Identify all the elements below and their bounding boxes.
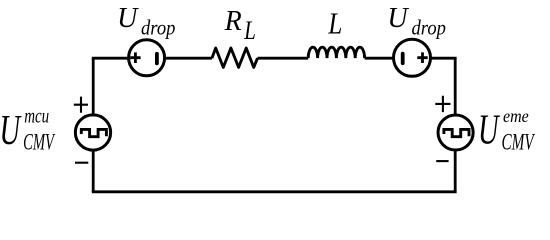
source Udrop2 circle xyxy=(394,39,431,76)
source Ucmv-mcu circle xyxy=(75,115,110,150)
svg-text:R: R xyxy=(224,6,242,37)
Ucmv-mcu square wave xyxy=(81,129,106,136)
Ucmv-eme square wave xyxy=(444,129,469,136)
svg-text:U: U xyxy=(387,3,409,34)
wire: bottom return xyxy=(92,190,457,193)
wire: between resistor and inductor xyxy=(258,57,309,60)
inductor L humps xyxy=(308,47,364,58)
svg-text:CMV: CMV xyxy=(502,131,536,156)
svg-text:drop: drop xyxy=(141,16,175,39)
svg-text:L: L xyxy=(328,7,343,41)
svg-text:U: U xyxy=(0,106,22,153)
source Udrop1 circle xyxy=(129,40,165,76)
Udrop1 minus bar xyxy=(155,54,159,64)
source Ucmv-eme circle xyxy=(438,115,473,150)
svg-text:eme: eme xyxy=(503,106,529,126)
wire: right vertical branch xyxy=(454,58,457,192)
svg-text:mcu: mcu xyxy=(24,104,49,127)
resistor RL zigzag xyxy=(212,48,258,67)
Ucmv-mcu minus terminal mark xyxy=(75,162,88,164)
svg-text:U: U xyxy=(478,106,501,153)
Udrop2 plus mark xyxy=(417,52,427,63)
Udrop2 minus bar xyxy=(401,54,405,64)
wire: top-left segment through Udrop1 xyxy=(92,57,212,60)
svg-text:U: U xyxy=(117,3,139,34)
Udrop1 plus mark xyxy=(130,52,140,63)
Ucmv-eme minus terminal mark xyxy=(436,160,448,162)
wire: left vertical branch xyxy=(92,58,95,192)
svg-text:CMV: CMV xyxy=(23,130,56,155)
svg-text:drop: drop xyxy=(412,16,446,39)
wire: top-right segment through Udrop2 xyxy=(365,57,457,60)
Ucmv-eme plus terminal mark xyxy=(435,96,450,112)
Ucmv-mcu plus terminal mark xyxy=(74,97,88,113)
svg-text:L: L xyxy=(243,17,255,46)
